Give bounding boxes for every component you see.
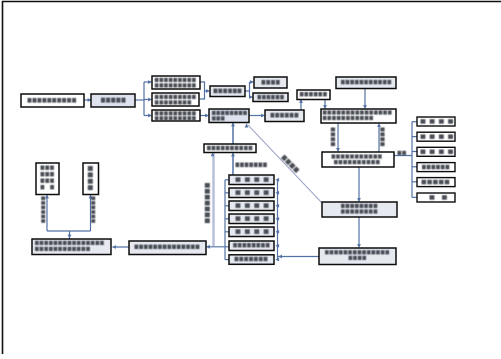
task left stub 5	[225, 231, 229, 233]
box B3 被责令社区戒毒、但未执行社区戒毒人员	[152, 110, 200, 121]
wire B1 B2 merge to drug-test	[200, 82, 205, 99]
box S5 康复治疗 rehab treatment	[229, 227, 274, 237]
box 制定针对性戒毒（康复）计划和工作措施 make targeted plan	[319, 248, 396, 265]
label 组织领导 organize-lead (vertical)	[331, 128, 335, 147]
wire approval to compulsory-detox	[249, 115, 264, 117]
box D1 吸毒成瘾 drug addiction	[254, 77, 287, 88]
wire make-plan to task bracket	[278, 256, 319, 258]
box E1 经县级以上公安机关批准 county-level police approval	[209, 109, 249, 123]
box R4 社区医护人员 community medical staff	[417, 163, 455, 172]
box F2 由公安机关责令社区戒毒 ordered community detox by police	[336, 77, 396, 89]
wire survey fan-out trunk	[135, 99, 144, 101]
label 组成 composition	[398, 151, 407, 155]
task left stub 3	[225, 205, 229, 207]
box R2 禁毒民警 anti-drug police	[417, 132, 455, 141]
wire fan-out to B2	[144, 99, 151, 101]
box S2 定期访谈 regular interviews	[229, 188, 274, 198]
task left stub 1	[225, 179, 229, 181]
wire order-community-detox down to leading-group	[364, 88, 366, 108]
box D2 吸毒成瘾严重 severe drug addiction	[253, 93, 288, 102]
task left bracket vertical	[224, 180, 226, 260]
box S6 定期检测（尿检） regular urine tests	[229, 241, 274, 251]
wire task bracket to evaluation	[207, 246, 230, 248]
box R5 禁毒志愿者 anti-drug volunteers	[417, 178, 455, 187]
task right stub 5	[277, 231, 278, 233]
wire workstation to member bracket	[394, 155, 412, 157]
member bracket stub 4	[412, 166, 417, 168]
box C1 现场毒品检查 on-site drug test	[210, 86, 245, 97]
label 在社区戒毒期间 during community detox (vertical)	[205, 183, 210, 223]
page left border	[2, 1, 4, 354]
box B2 发现吸食、注射毒品嫌疑人员	[152, 93, 199, 106]
task left stub 2	[225, 192, 229, 194]
box R3 社区干部 community cadres	[417, 147, 455, 156]
box L1 认定为戒断三年以上人员 certified 3-year abstinent	[36, 163, 59, 195]
wire fan-out to B1	[144, 81, 151, 83]
box A1 禁毒机关（公安部门） anti-drug agency (public security)	[21, 94, 84, 107]
member bracket stub 6	[412, 196, 417, 198]
box B1 被责令社区康复、但未执行社区康复人员	[152, 76, 200, 89]
task left stub 6	[225, 259, 229, 261]
wire twice-refusal to violation	[232, 153, 234, 175]
box E2 强制隔离戒毒 compulsory isolated detox	[265, 110, 304, 122]
task right stub 4	[277, 218, 278, 220]
label 社区戒毒期满 community-detox expiry (vertical)	[91, 197, 95, 223]
wire evaluation to release	[113, 246, 130, 248]
wire anti-drug-agency to survey	[84, 99, 91, 101]
task right stub 2	[277, 192, 278, 194]
wire diagonal refuse-to-sign	[248, 125, 323, 204]
task right stub 1	[277, 179, 278, 181]
wire compulsory-detox up to order-rehab	[300, 100, 302, 110]
box R1 禁毒专干 anti-drug specialist	[417, 117, 455, 126]
wire fan-out to B3	[144, 115, 151, 117]
box G1 乡（镇）人民政府社区戒毒（康复）领导小组（办公室） township leading group	[321, 109, 396, 123]
box G2 社区戒毒（康复）工作站（下设若干帮扶小组） workstation	[322, 152, 394, 167]
task right stub 7	[277, 259, 278, 261]
box S7 美沙酮维持治疗 methadone maintenance	[229, 255, 274, 264]
wire branch up to community-rehab	[90, 195, 92, 231]
wire violation up to approval	[232, 123, 234, 144]
task right stub 3	[277, 205, 278, 207]
task right stub 6	[277, 245, 278, 247]
member bracket stub 1	[412, 121, 417, 123]
member bracket vertical	[411, 122, 413, 198]
box 定期评估，适时调整计划和措施 periodic evaluation	[129, 241, 206, 255]
label 拒不签订（协议） refuse-to-sign (diagonal)	[281, 155, 300, 174]
label 定期汇报 regular-report (vertical)	[380, 128, 384, 147]
box S1 定期查毒 regular drug check	[229, 175, 274, 185]
wire B3 to approval	[200, 115, 208, 117]
box S4 行为矫正 behavior correction	[229, 214, 274, 224]
wire release branch trunk	[69, 231, 71, 239]
page top border	[2, 1, 501, 3]
box F1 责令社区康复 order community rehab	[297, 90, 330, 100]
wire workstation down to inform-rights	[358, 167, 360, 201]
task left stub 4	[225, 218, 229, 220]
wire inform-rights down to make-plan	[358, 217, 360, 247]
wire faint violation feedback	[212, 153, 214, 247]
wire drug-test fan-out	[245, 90, 250, 92]
label 社区康复期满 community-rehab expiry (vertical)	[41, 197, 45, 223]
wire order-rehab down to leading-group	[324, 99, 326, 108]
box H1 严重违反社区戒毒协议 serious violation of agreement	[204, 144, 256, 153]
box R6 家属 family members	[417, 193, 455, 202]
box 社区戒毒（康复）执行期限届满，解除社区戒毒（康复）决定 release decision	[32, 239, 111, 255]
box L2 社区康复 community rehabilitation	[83, 163, 99, 195]
box 告知权利和义务，签订社区戒毒协议 inform rights, sign agreement	[322, 202, 397, 217]
member bracket stub 2	[412, 136, 417, 138]
wire workstation up to leading-group	[378, 124, 380, 152]
wire leading-group down to workstation	[337, 123, 339, 151]
label 两次以上不参加 twice-or-more refusal	[236, 163, 267, 168]
member bracket stub 3	[412, 151, 417, 153]
task right bracket vertical	[277, 180, 279, 260]
member bracket stub 5	[412, 181, 417, 183]
wire branch up to certified	[46, 195, 48, 231]
box S3 心理咨询 psychological counseling	[229, 201, 274, 211]
box A2 摸底、排查 survey and screening	[91, 94, 135, 107]
